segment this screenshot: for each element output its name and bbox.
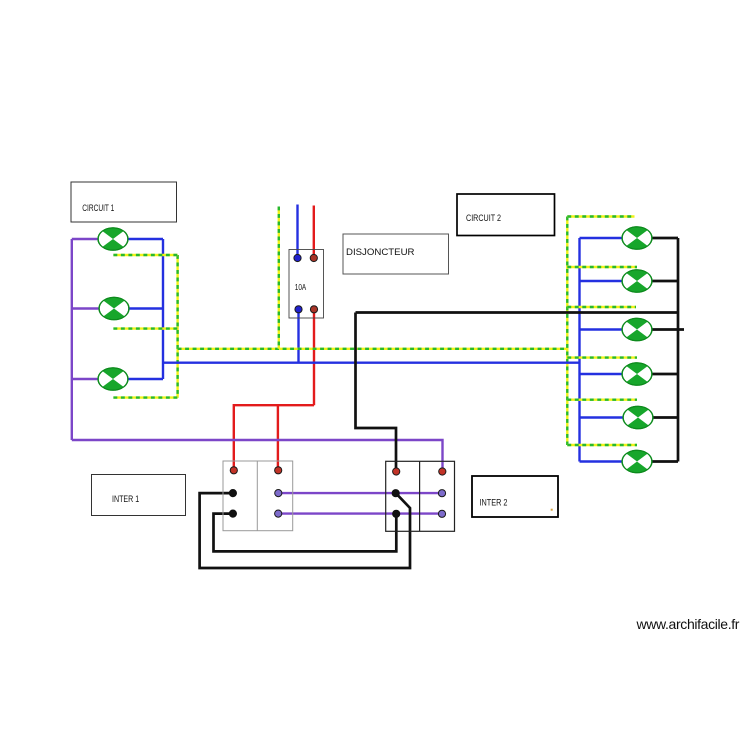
switch SW2 pin BL black bbox=[393, 510, 400, 517]
wire blue stub lamp L1 bbox=[128, 238, 163, 240]
switch SW2 pin TR red bbox=[439, 468, 446, 475]
breaker pin top-left blue bbox=[294, 254, 301, 261]
lamp L5 bbox=[622, 270, 652, 292]
wire purple shuttle 2 between switches bbox=[278, 512, 442, 514]
lamp L3 bbox=[98, 368, 128, 390]
wire earth stub under lamp L1 bbox=[113, 254, 177, 256]
switch SW1 pin ML black bbox=[229, 490, 236, 497]
switch SW2 pin ML black bbox=[392, 490, 399, 497]
svg-text:CIRCUIT 1: CIRCUIT 1 bbox=[82, 203, 114, 214]
wire blue stub lamp L3 bbox=[128, 378, 163, 380]
wire black stub lamp L5 bbox=[652, 280, 678, 283]
wire red branch to switch1 right pin bbox=[277, 405, 279, 470]
wire blue supply to breaker top-left pin bbox=[296, 205, 298, 259]
wire red branch to switch1 left pin bbox=[234, 405, 314, 470]
wire black switch1 traveller B bbox=[214, 514, 397, 552]
wire red breaker bottom-right down bbox=[313, 309, 315, 405]
lamp L8 bbox=[623, 406, 653, 428]
wire blue breaker bottom-left drop bbox=[297, 309, 299, 362]
wire earth stub lamp L8 bbox=[567, 399, 637, 401]
wire blue stub lamp L5 bbox=[580, 280, 623, 282]
wire purple stub lamp L3 bbox=[72, 378, 98, 380]
svg-text:CIRCUIT 2: CIRCUIT 2 bbox=[466, 213, 501, 224]
wire black stub lamp L7 bbox=[652, 373, 678, 376]
switch SW2 body bbox=[386, 461, 455, 531]
switch SW1 pin L red bbox=[230, 467, 237, 474]
switch SW1 pin BL black bbox=[229, 510, 236, 517]
wire blue circuit1 vertical bus bbox=[162, 239, 164, 379]
wire earth stub lamp L4 bbox=[567, 215, 634, 217]
switch SW1 pin MR purple bbox=[275, 490, 282, 497]
switch SW1 body bbox=[223, 461, 293, 531]
wire earth stub under lamp L3 bbox=[113, 396, 177, 398]
label box INTER 2 bbox=[472, 476, 558, 517]
wire black lamp feed horizontal run bbox=[356, 311, 679, 314]
lamp L2 bbox=[99, 297, 129, 319]
speck orange bbox=[551, 509, 553, 511]
wire red supply to breaker top-right pin bbox=[313, 206, 315, 259]
wire purple stub lamp L1 bbox=[72, 238, 98, 240]
svg-text:DISJONCTEUR: DISJONCTEUR bbox=[346, 247, 415, 258]
breaker pin bottom-right red bbox=[310, 306, 317, 313]
label box INTER 1 bbox=[92, 475, 186, 516]
wire earth long horizontal run bbox=[178, 348, 568, 350]
label box CIRCUIT 2 bbox=[457, 194, 555, 236]
wire black stub lamp L8 bbox=[653, 416, 678, 419]
switch SW2 pin MR purple bbox=[438, 490, 445, 497]
breaker pin bottom-left blue bbox=[295, 306, 302, 313]
wire blue stub lamp L2 bbox=[129, 307, 163, 309]
switch SW2 pin TL red bbox=[393, 468, 400, 475]
lamp L1 bbox=[98, 228, 128, 250]
wire purple long return run to switch2 bbox=[72, 440, 443, 472]
label box DISJONCTEUR bbox=[343, 234, 449, 274]
wire earth stub lamp L6 bbox=[567, 306, 636, 308]
wire blue stub lamp L8 bbox=[580, 416, 624, 418]
wire black stub lamp L4 bbox=[652, 237, 678, 240]
svg-text:www.archifacile.fr: www.archifacile.fr bbox=[636, 616, 740, 632]
lamp L4 bbox=[622, 227, 652, 249]
wire blue stub lamp L9 bbox=[580, 460, 623, 462]
wire black drop to switch2 common pin bbox=[356, 313, 397, 472]
wire purple shuttle 1 between switches bbox=[278, 492, 442, 494]
label box CIRCUIT 1 bbox=[71, 182, 177, 222]
wire earth stub lamp L7 bbox=[567, 356, 637, 358]
wire blue circuit2 vertical bus bbox=[578, 238, 580, 462]
switch SW2 pin BR purple bbox=[438, 510, 445, 517]
lamp L9 bbox=[622, 450, 652, 472]
breaker pin top-right red bbox=[310, 254, 317, 261]
wire blue stub lamp L4 bbox=[580, 237, 623, 239]
breaker DISJONCTEUR 10A body bbox=[289, 250, 324, 319]
wire black stub lamp L9 bbox=[652, 460, 678, 463]
wire earth stub lamp L5 bbox=[567, 266, 637, 268]
wire black circuit2 vertical bus bbox=[677, 238, 680, 462]
switch SW1 pin R red bbox=[275, 467, 282, 474]
wire purple stub lamp L2 bbox=[72, 307, 99, 309]
wire earth stub lamp L9 bbox=[567, 444, 637, 446]
wire purple circuit1 vertical bus bbox=[71, 239, 73, 440]
wire earth stub under lamp L2 bbox=[113, 327, 177, 329]
wire earth yellow-green circuit1 vertical bbox=[176, 255, 178, 398]
svg-text:INTER 1: INTER 1 bbox=[112, 494, 139, 505]
wire blue stub lamp L6 bbox=[580, 328, 623, 330]
lamp L7 bbox=[622, 363, 652, 385]
wire blue long neutral horizontal run bbox=[163, 362, 580, 364]
wire black stub lamp L6 bbox=[652, 328, 684, 331]
svg-text:10A: 10A bbox=[295, 282, 307, 292]
wire earth drop near breaker bbox=[278, 207, 280, 349]
svg-text:INTER 2: INTER 2 bbox=[480, 498, 508, 509]
switch SW1 pin BR purple bbox=[275, 510, 282, 517]
wire black switch1 traveller A bbox=[200, 493, 410, 568]
lamp L6 bbox=[622, 318, 652, 340]
wire earth circuit2 vertical bbox=[566, 217, 568, 446]
wire blue stub lamp L7 bbox=[580, 373, 623, 375]
